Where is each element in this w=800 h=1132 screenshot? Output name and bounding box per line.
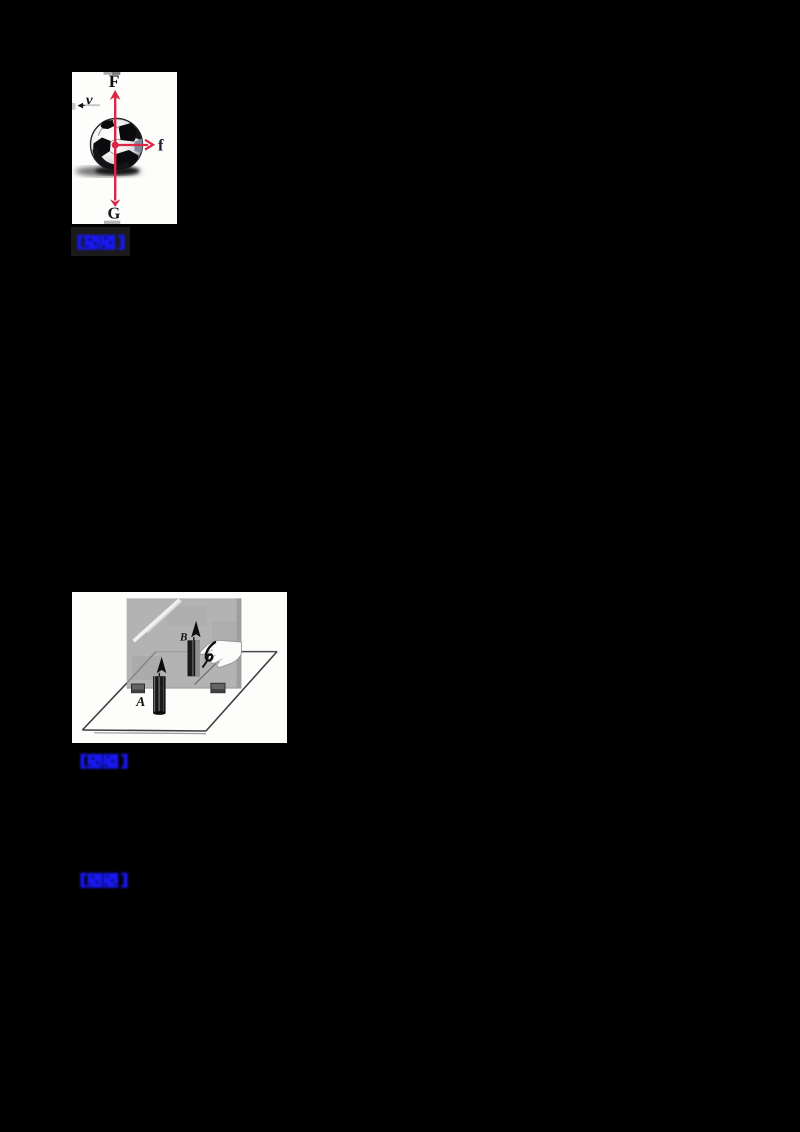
blue label 1 [77, 234, 125, 256]
svg-text:G: G [108, 203, 121, 222]
candle A [153, 656, 166, 714]
figure 1: soccer-ball force diagram [72, 72, 177, 224]
glass pane [127, 598, 242, 688]
hand [200, 640, 241, 667]
reflected edge in glass [195, 663, 216, 684]
table back edge (through glass) [156, 650, 241, 652]
svg-text:B: B [179, 631, 187, 643]
bottom rim crescent [93, 146, 133, 172]
left support block [132, 684, 145, 693]
scan tick left edge [72, 103, 75, 110]
force arrow F (up) [114, 96, 116, 145]
glass streaks [134, 599, 180, 640]
bluish right panel [135, 138, 143, 153]
velocity arrow (left) [78, 102, 84, 108]
dark curled thumb / pen [206, 642, 215, 660]
soccer ball [91, 118, 144, 172]
ball shadow [75, 166, 141, 176]
center node [112, 141, 119, 148]
blue label 3 [80, 872, 128, 894]
right edge dark [136, 126, 144, 141]
table left edge (through glass) [127, 651, 156, 683]
left black patch [93, 137, 111, 157]
blue label 2 [80, 753, 128, 775]
svg-text:F: F [109, 72, 120, 91]
right support block [211, 683, 225, 692]
glass bottom edge [127, 687, 242, 689]
svg-text:f: f [158, 135, 164, 154]
scan smudge bottom edge [104, 220, 120, 223]
bottom black patch [115, 150, 139, 170]
force arrow G (down) [114, 145, 116, 201]
table front edge [82, 730, 206, 731]
force arrow f (right, open head) [115, 143, 148, 145]
top-left black patch [101, 120, 115, 129]
table left edge [82, 683, 126, 730]
scan smudge top edge [104, 71, 121, 74]
table back edge (right of glass) [241, 650, 277, 652]
top-right pentagon [119, 123, 140, 142]
highlight box behind label 1 [71, 227, 130, 256]
table right edge [206, 651, 277, 730]
candle B (image) [188, 620, 201, 676]
figure 2: candle / plane glass experiment [72, 592, 287, 743]
svg-text:A: A [135, 693, 145, 708]
seam lines [113, 121, 120, 128]
